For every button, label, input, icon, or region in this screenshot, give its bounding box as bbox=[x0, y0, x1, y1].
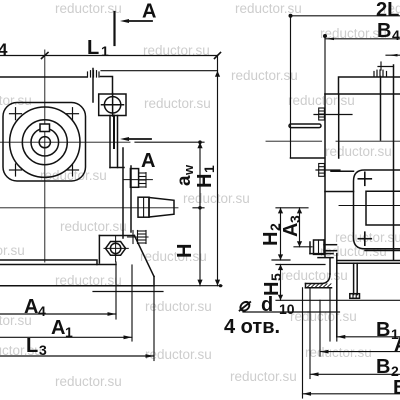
flange band bottom steps bbox=[310, 253, 333, 255]
B dimension line bbox=[303, 393, 400, 395]
bolt 1 axis bbox=[314, 114, 352, 116]
svg-text:L: L bbox=[26, 335, 38, 357]
keyway bbox=[40, 124, 50, 132]
slot stud cap bbox=[350, 294, 360, 299]
svg-text:reductor.su: reductor.su bbox=[231, 68, 298, 83]
foot inner vertical extension bbox=[329, 288, 331, 341]
H / aw dimension line bbox=[135, 142, 204, 286]
right foot top lip bbox=[337, 260, 400, 262]
flange square bbox=[3, 103, 86, 182]
svg-text:2L: 2L bbox=[376, 0, 399, 21]
svg-text:reductor.su: reductor.su bbox=[320, 244, 387, 259]
svg-text:5: 5 bbox=[268, 273, 284, 281]
dimension line L4/L1 bbox=[0, 53, 221, 59]
body step to flange bbox=[325, 191, 354, 193]
A (bottom) dimension line bbox=[320, 351, 400, 353]
svg-text:A: A bbox=[142, 1, 156, 23]
svg-text:A: A bbox=[280, 223, 302, 237]
svg-text:reductor.su: reductor.su bbox=[235, 1, 302, 16]
label H rotated bbox=[174, 244, 196, 258]
svg-text:reductor.su: reductor.su bbox=[325, 144, 392, 159]
L3 dimension line bbox=[0, 286, 154, 361]
svg-text:H: H bbox=[174, 244, 196, 258]
hex bolt 3 shank bbox=[324, 244, 337, 246]
nut bracket plate bbox=[99, 235, 134, 237]
left view: output axis centerline bbox=[0, 141, 130, 143]
breather plug (left view) stem bbox=[92, 69, 94, 103]
section line A bbox=[113, 12, 115, 45]
label H2 rotated bbox=[260, 223, 283, 246]
center hole circle bbox=[39, 137, 50, 148]
flange bolt cross 1 bbox=[10, 108, 79, 176]
svg-text:reductor.su: reductor.su bbox=[55, 374, 122, 389]
foot pad bottom bbox=[306, 287, 332, 289]
bolt 2 on left edge bbox=[319, 164, 325, 177]
breather offset ticks bbox=[380, 62, 382, 70]
plug 2 ribbed body bbox=[128, 231, 149, 244]
svg-text:B: B bbox=[377, 20, 391, 42]
H1 dimension line bbox=[101, 56, 222, 288]
flange bolt cross 3 bbox=[10, 169, 22, 171]
A4 dimension line bbox=[0, 262, 116, 319]
left view: inner right edge bbox=[130, 166, 132, 232]
svg-text:1: 1 bbox=[65, 324, 73, 340]
body bottom lip bbox=[0, 264, 116, 266]
svg-text:A: A bbox=[141, 150, 155, 172]
right view: inner vertical bbox=[338, 94, 340, 158]
sight glass crosshair bbox=[112, 94, 114, 117]
svg-text:B: B bbox=[376, 319, 390, 341]
left view: worm axis centerline bbox=[0, 207, 178, 209]
svg-text:reductor.su: reductor.su bbox=[145, 299, 212, 314]
svg-text:d: d bbox=[261, 294, 273, 316]
flange bolt cross 2 bbox=[67, 113, 79, 115]
svg-text:A: A bbox=[394, 334, 400, 356]
svg-text:reductor.su: reductor.su bbox=[281, 268, 348, 283]
A1 dimension line bbox=[0, 265, 132, 341]
breather plug (right view) head bbox=[374, 70, 387, 77]
bolt 2 axis bbox=[316, 169, 340, 171]
A3 dimension line bbox=[294, 208, 312, 247]
boss circle bbox=[22, 120, 67, 165]
A (bottom) extension line bbox=[319, 300, 321, 356]
right body inner vertical bbox=[393, 65, 395, 260]
svg-text:10: 10 bbox=[279, 301, 295, 317]
label aw rotated bbox=[174, 164, 196, 186]
svg-text:reductor.su: reductor.su bbox=[335, 230, 400, 245]
slot hole walls bbox=[353, 263, 355, 294]
svg-text:reductor.su: reductor.su bbox=[183, 191, 250, 206]
breather plug (left view) head hatching bbox=[88, 71, 100, 78]
label H5 rotated bbox=[261, 273, 284, 296]
2L2 dimension line bbox=[291, 16, 400, 158]
right view: worm axis centerline bbox=[266, 140, 322, 142]
svg-text:A: A bbox=[24, 296, 38, 318]
svg-text:1: 1 bbox=[201, 165, 217, 173]
svg-text:4: 4 bbox=[38, 303, 46, 319]
view A arrow (middle) bbox=[126, 138, 151, 140]
foot pad top bbox=[306, 283, 322, 285]
plug 1 collar bbox=[130, 169, 138, 188]
left view: vertical centerline bbox=[44, 50, 46, 262]
left view: body top edge bbox=[0, 76, 87, 78]
svg-text:reductor.su: reductor.su bbox=[60, 219, 127, 234]
svg-text:3: 3 bbox=[39, 342, 47, 358]
sight glass circle bbox=[104, 97, 120, 113]
B2 dimension line bbox=[310, 373, 400, 375]
svg-text:4: 4 bbox=[0, 40, 8, 59]
hex bolt 3 head bbox=[314, 240, 325, 254]
svg-text:4: 4 bbox=[392, 27, 400, 43]
worm shaft cone end bbox=[149, 198, 174, 218]
view A arrow (top) bbox=[126, 20, 152, 22]
bore circle bbox=[31, 128, 59, 156]
right view: flange axis centerline bbox=[339, 205, 400, 207]
connector to flange top bbox=[331, 170, 354, 172]
right view: boss bottom step bbox=[291, 157, 325, 159]
svg-text:reductor.su: reductor.su bbox=[144, 96, 211, 111]
label H1 rotated bbox=[194, 165, 217, 188]
right view: body top bbox=[325, 93, 400, 95]
output flange rounded plate bbox=[354, 170, 400, 249]
breather plug (right view) stem bbox=[380, 77, 382, 141]
H2 dimension line bbox=[272, 208, 308, 260]
plug 1 ribbed body bbox=[139, 173, 146, 188]
nut circle bbox=[110, 243, 120, 253]
worm shaft cylinder bbox=[138, 197, 149, 217]
flange hole cross bottom bbox=[358, 238, 371, 240]
right view: cap top bbox=[339, 77, 400, 94]
svg-text:H: H bbox=[194, 174, 216, 188]
svg-text:1: 1 bbox=[101, 43, 109, 59]
foot bottom bbox=[0, 285, 154, 287]
B extension line bbox=[302, 288, 304, 398]
foot vertical outer bbox=[329, 258, 331, 274]
svg-text:4 отв.: 4 отв. bbox=[224, 316, 280, 338]
shaft end inner rect bbox=[366, 191, 400, 225]
flange outer circle bbox=[10, 107, 80, 177]
svg-text:reductor.su: reductor.su bbox=[0, 243, 25, 258]
flange hole cross top bbox=[358, 172, 371, 245]
bolt shank below box bbox=[109, 116, 111, 168]
B4 dimension line bbox=[325, 35, 400, 94]
svg-text:reductor.su: reductor.su bbox=[288, 93, 355, 108]
B1 dimension line bbox=[337, 336, 400, 338]
svg-text:reductor.su: reductor.su bbox=[145, 347, 212, 362]
plug 1 axis bbox=[123, 179, 152, 181]
body bottom edge right of flange bbox=[365, 250, 400, 252]
svg-text:reductor.su: reductor.su bbox=[305, 345, 372, 360]
foot pad hatching bbox=[307, 284, 331, 288]
svg-text:B: B bbox=[393, 377, 400, 399]
svg-text:A: A bbox=[51, 317, 65, 339]
right view: left edge bbox=[324, 94, 326, 257]
body bottom edge bbox=[0, 260, 97, 265]
gusset slant lines bbox=[134, 236, 154, 277]
svg-text:a: a bbox=[174, 175, 195, 186]
B1 extension line bbox=[336, 300, 338, 341]
svg-text:3: 3 bbox=[287, 215, 303, 223]
left view: body right edge bbox=[122, 148, 124, 238]
oil bar bbox=[289, 124, 321, 128]
sight box on body corner bbox=[99, 94, 126, 116]
label A3 rotated bbox=[280, 215, 303, 237]
bolt 1 on left edge bbox=[319, 108, 325, 120]
B2 extension line bbox=[309, 288, 311, 379]
svg-text:reductor.su: reductor.su bbox=[230, 369, 297, 384]
svg-text:reductor.su: reductor.su bbox=[290, 309, 357, 324]
partial dimension at top right bbox=[386, 54, 400, 56]
foot fillet bbox=[321, 274, 330, 284]
hex nut bbox=[106, 242, 126, 256]
leader shelf for d10 label bbox=[243, 311, 340, 313]
H5 dimension line bbox=[276, 265, 400, 301]
svg-text:L: L bbox=[87, 37, 99, 59]
tick at flange centerline bbox=[42, 53, 49, 59]
svg-text:B: B bbox=[376, 356, 390, 378]
step at bottom of bolt bbox=[110, 167, 124, 169]
flange bolt cross 4 bbox=[67, 169, 79, 171]
svg-text:reductor.su: reductor.su bbox=[0, 93, 32, 108]
svg-text:reductor.su: reductor.su bbox=[55, 1, 122, 16]
svg-text:H: H bbox=[260, 232, 282, 246]
